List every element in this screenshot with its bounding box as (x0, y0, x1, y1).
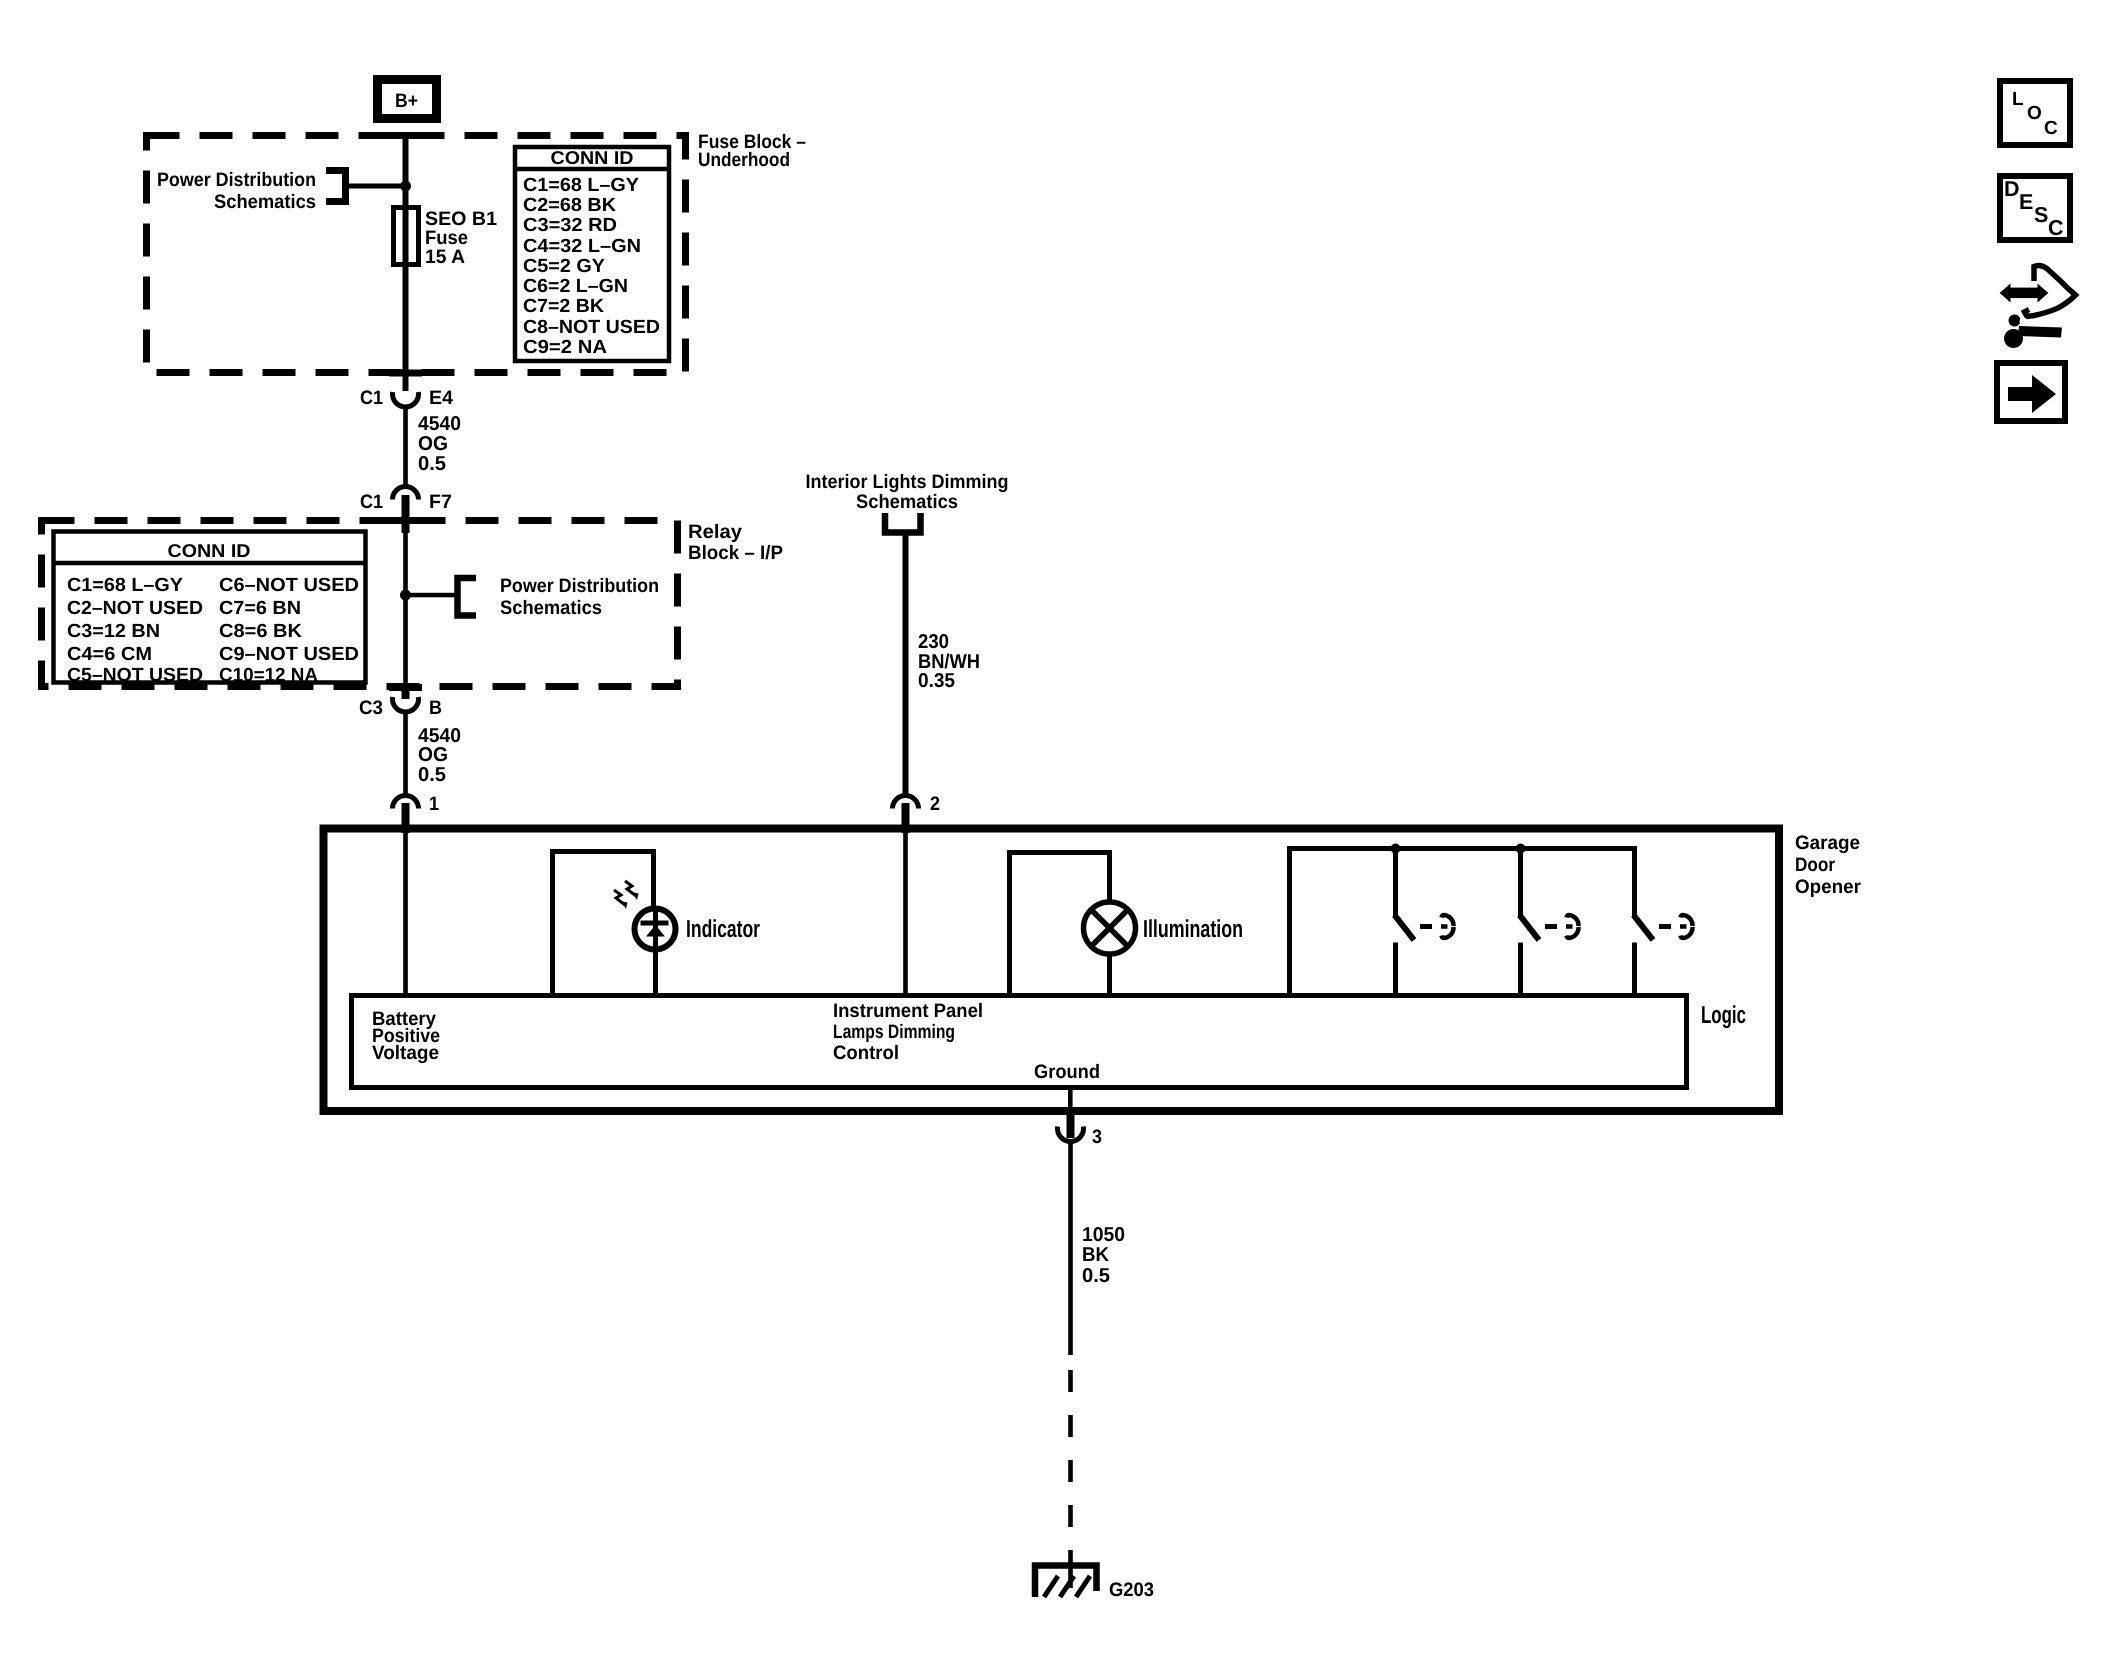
svg-text:C2=68 BK: C2=68 BK (523, 195, 616, 216)
svg-text:C: C (2044, 118, 2058, 139)
svg-text:OG: OG (418, 433, 448, 455)
fuse SEO B1 15 A (394, 208, 498, 269)
fuse block border dash at E4 wire crossing (389, 370, 422, 377)
svg-text:4540: 4540 (418, 413, 461, 435)
label Instrument Panel Lamps Dimming Control (833, 1000, 983, 1064)
svg-text:Underhood: Underhood (698, 149, 790, 171)
label Battery Positive Voltage (372, 1008, 440, 1064)
svg-text:Illumination: Illumination (1143, 916, 1243, 943)
schematic navigation icon (double arrow, outline, wrench) (2000, 266, 2076, 349)
svg-text:C9–NOT USED: C9–NOT USED (219, 644, 359, 665)
svg-text:S: S (2034, 203, 2048, 227)
wire below illumination lamp (1107, 954, 1112, 996)
junction node switch 1 (1391, 844, 1401, 854)
svg-text:1050: 1050 (1082, 1224, 1125, 1246)
svg-text:CONN ID: CONN ID (551, 147, 634, 168)
svg-text:Logic: Logic (1701, 1002, 1746, 1029)
svg-text:0.5: 0.5 (418, 453, 446, 475)
svg-text:Control: Control (833, 1042, 899, 1064)
illumination branch box (1010, 853, 1110, 997)
svg-text:BK: BK (1082, 1244, 1110, 1266)
label Relay Block - I/P (688, 521, 783, 564)
svg-text:L: L (2012, 89, 2024, 110)
LOC icon box (2000, 81, 2070, 145)
svg-text:Schematics: Schematics (500, 597, 602, 619)
fuse block underhood dashed box (147, 136, 686, 373)
wire battery positive inside box (403, 833, 408, 996)
connector pin 1 of garage door opener (393, 793, 440, 815)
wire stub into C3/B (402, 684, 410, 699)
svg-text:E4: E4 (429, 387, 453, 409)
label Garage Door Opener (1795, 832, 1861, 898)
switch 1 linkage dash arrow (1420, 915, 1454, 938)
label Interior Lights Dimming Schematics (806, 471, 1009, 513)
wire stub pin 1 into garage door opener (402, 803, 410, 833)
wire node to bracket (relay block) (405, 593, 457, 598)
connector C1 pin F7 (360, 487, 452, 514)
relay block border dash at F7 wire crossing (389, 517, 422, 524)
bracket to power distribution (relay block) (458, 578, 477, 616)
wire below indicator LED (653, 949, 658, 996)
svg-text:C3: C3 (359, 697, 383, 719)
svg-text:Door: Door (1795, 854, 1835, 876)
bracket below interior lights label (885, 513, 921, 533)
svg-text:B+: B+ (395, 90, 418, 112)
svg-text:2: 2 (930, 793, 940, 815)
svg-text:C4=6 CM: C4=6 CM (67, 644, 152, 665)
CONN ID table (relay block) (54, 532, 366, 687)
svg-text:C3=32 RD: C3=32 RD (523, 215, 617, 236)
svg-text:C4=32 L–GN: C4=32 L–GN (523, 236, 641, 257)
svg-text:C7=6 BN: C7=6 BN (219, 598, 301, 619)
svg-text:Interior Lights Dimming: Interior Lights Dimming (806, 471, 1009, 493)
svg-text:0.5: 0.5 (418, 764, 446, 786)
switch 2 linkage dash arrow (1545, 915, 1579, 938)
svg-text:CONN ID: CONN ID (168, 540, 251, 561)
svg-text:C6–NOT USED: C6–NOT USED (219, 575, 359, 596)
wire ground from logic to box edge (1068, 1088, 1073, 1109)
svg-text:Indicator: Indicator (686, 916, 760, 943)
wire pin 3 down circuit 1050 BK 0.5 (1068, 1140, 1073, 1355)
svg-text:B: B (429, 697, 442, 719)
junction node (relay block) (400, 590, 411, 601)
wire F7 to C3/B (403, 533, 408, 685)
wire bracket to node (fuse block) (348, 184, 405, 189)
wire B to pin 1 circuit 4540 OG 0.5 (403, 712, 408, 794)
svg-text:C1: C1 (360, 491, 383, 513)
svg-text:Power Distribution: Power Distribution (157, 169, 316, 191)
junction node switch 2 (1516, 844, 1526, 854)
switch 3 (1632, 851, 1653, 997)
svg-text:230: 230 (918, 631, 949, 653)
svg-text:C10=12 NA: C10=12 NA (219, 665, 318, 686)
svg-text:C1=68 L–GY: C1=68 L–GY (523, 175, 639, 196)
svg-text:G203: G203 (1109, 1579, 1154, 1601)
switch 2 (1518, 851, 1539, 997)
svg-text:C6=2 L–GN: C6=2 L–GN (523, 276, 628, 297)
svg-text:C5=2 GY: C5=2 GY (523, 256, 605, 277)
relay block border dash at C3/B wire crossing (389, 684, 422, 691)
svg-text:Lamps Dimming: Lamps Dimming (833, 1021, 955, 1043)
garage door opener box (324, 829, 1780, 1112)
indicator LED circle and diode (635, 909, 676, 952)
svg-text:C: C (2048, 216, 2064, 240)
indicator branch box (553, 852, 654, 997)
wire instrument panel lamps dimming inside box (903, 833, 908, 996)
svg-text:15 A: 15 A (425, 246, 465, 268)
svg-text:C5–NOT USED: C5–NOT USED (67, 665, 203, 686)
connector C1 pin E4 (360, 387, 453, 409)
fuse block border dash at B+ wire crossing (389, 132, 422, 139)
svg-text:C2–NOT USED: C2–NOT USED (67, 598, 203, 619)
DESC icon box (2000, 176, 2070, 240)
switch bus rail (1287, 846, 1637, 851)
connector pin 2 of garage door opener (893, 793, 941, 815)
svg-text:OG: OG (418, 744, 448, 766)
wire stub into ground symbol (1068, 1564, 1073, 1588)
svg-text:D: D (2004, 177, 2020, 201)
connector C3 pin B (359, 697, 442, 719)
indicator LED photo arrows (614, 881, 639, 909)
svg-text:1: 1 (429, 793, 439, 815)
illumination lamp (1084, 902, 1136, 954)
label Fuse Block - Underhood (698, 131, 806, 171)
svg-text:Schematics: Schematics (856, 491, 958, 513)
bracket to power distribution (fuse block) (326, 171, 346, 202)
svg-text:0.35: 0.35 (918, 670, 955, 692)
svg-text:C3=12 BN: C3=12 BN (67, 621, 160, 642)
svg-text:Instrument Panel: Instrument Panel (833, 1000, 983, 1022)
svg-text:Power Distribution: Power Distribution (500, 575, 659, 597)
connector pin 3 of garage door opener (1058, 1126, 1103, 1148)
label Power Distribution Schematics (relay block) (500, 575, 659, 619)
svg-text:Voltage: Voltage (372, 1042, 439, 1064)
svg-text:Opener: Opener (1795, 876, 1861, 898)
battery positive terminal B+ (378, 80, 437, 119)
logic box (352, 996, 1687, 1088)
switch 1 (1393, 851, 1414, 997)
svg-text:C1: C1 (360, 387, 383, 409)
junction node (fuse block) (400, 181, 411, 192)
svg-text:0.5: 0.5 (1082, 1265, 1110, 1287)
relay block I/P dashed box (42, 521, 678, 687)
hyperlink arrow icon box (1997, 363, 2065, 421)
svg-text:Block – I/P: Block – I/P (688, 542, 783, 564)
svg-text:C8=6 BK: C8=6 BK (219, 621, 302, 642)
wire dashed segment to ground G203 (1068, 1370, 1073, 1564)
wire interior lights dimming to pin 2 circuit 230 BN/WH 0.35 (903, 533, 909, 795)
svg-text:O: O (2027, 103, 2042, 124)
svg-text:C1=68 L–GY: C1=68 L–GY (67, 575, 183, 596)
wire rail left drop to logic (1287, 846, 1292, 996)
svg-text:Garage: Garage (1795, 832, 1860, 854)
svg-text:3: 3 (1092, 1126, 1102, 1148)
svg-text:Ground: Ground (1034, 1061, 1100, 1083)
ground symbol G203 (1035, 1566, 1154, 1602)
svg-text:C8–NOT USED: C8–NOT USED (523, 317, 660, 338)
switch 3 linkage dash arrow (1659, 915, 1693, 938)
svg-text:E: E (2019, 190, 2033, 214)
CONN ID table (fuse block) (515, 147, 669, 361)
svg-text:C9=2 NA: C9=2 NA (523, 337, 607, 358)
wire B+ to connector C1/E4 (403, 133, 409, 391)
wire stub ground pin 3 (1067, 1113, 1075, 1138)
wire E4 to F7 circuit 4540 OG 0.5 (403, 406, 408, 487)
svg-text:Schematics: Schematics (214, 191, 316, 213)
svg-text:F7: F7 (429, 491, 452, 513)
wire stub F7 into relay block (402, 495, 410, 533)
svg-text:Relay: Relay (688, 521, 742, 543)
label Power Distribution Schematics (fuse block) (157, 169, 316, 213)
wire stub pin 2 into garage door opener (902, 803, 910, 833)
svg-text:C7=2 BK: C7=2 BK (523, 296, 604, 317)
